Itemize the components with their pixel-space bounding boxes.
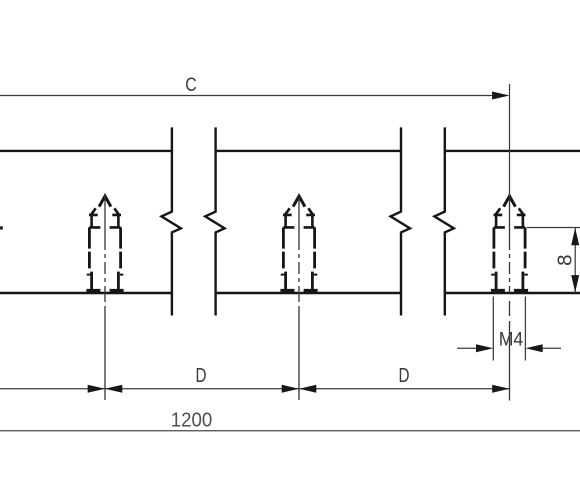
svg-text:D: D	[196, 365, 207, 387]
svg-text:C: C	[185, 75, 197, 96]
svg-text:M4: M4	[499, 330, 524, 351]
svg-text:8: 8	[553, 254, 576, 265]
svg-text:1200: 1200	[171, 410, 213, 432]
svg-text:D: D	[399, 365, 410, 387]
